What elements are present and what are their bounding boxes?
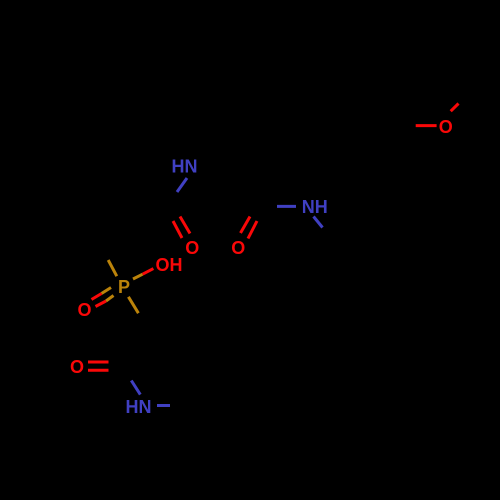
- svg-text:O: O: [77, 300, 91, 320]
- svg-text:HN: HN: [172, 157, 198, 177]
- wire O3-CH3 bond half (red, diagonal): [451, 104, 459, 112]
- svg-text:NH: NH: [302, 197, 328, 217]
- wire C=O2 double bond half a (red): [241, 217, 251, 234]
- wire N1-C carbonyl bond half (blue): [177, 178, 187, 192]
- wire C=O1 double bond half b (red): [180, 217, 190, 234]
- wire P1=O5 double bond lower half (orange): [106, 296, 114, 302]
- wire C-N3 bond half (blue, diagonal): [131, 381, 140, 395]
- wire C=O1 double bond half a (red): [173, 221, 182, 238]
- svg-text:OH: OH: [156, 255, 183, 275]
- svg-text:O: O: [70, 357, 84, 377]
- wire P1-CH2 bond half down-right (orange): [128, 297, 138, 313]
- wire N3-CH3 bond half (blue, horizontal): [157, 404, 170, 407]
- wire C-N2 bond half (blue, horizontal): [277, 205, 296, 208]
- svg-text:HN: HN: [126, 397, 152, 417]
- wire ring-O3 bond half (red, horizontal): [416, 124, 437, 127]
- wire C=O6 double bond upper half (red, horizontal): [88, 361, 109, 364]
- svg-text:O: O: [439, 117, 453, 137]
- wire P1=O5 double bond lower half (red): [96, 301, 107, 307]
- wire P1=O5 double bond upper half (red): [92, 294, 102, 300]
- wire P1-C bond half up-left (orange): [108, 260, 117, 276]
- wire N2-CH2 bond half (blue, diagonal): [314, 217, 323, 228]
- wire P1=O5 double bond upper half (orange): [102, 288, 112, 294]
- svg-text:O: O: [185, 238, 199, 258]
- wire P1-OH bond half (orange): [133, 274, 143, 279]
- svg-text:P: P: [118, 277, 130, 297]
- wire C=O2 double bond half b (red): [248, 221, 257, 239]
- svg-text:O: O: [231, 238, 245, 258]
- wire P1-OH bond half (red): [143, 269, 154, 275]
- wire C=O6 double bond lower half (red, horizontal): [88, 369, 109, 372]
